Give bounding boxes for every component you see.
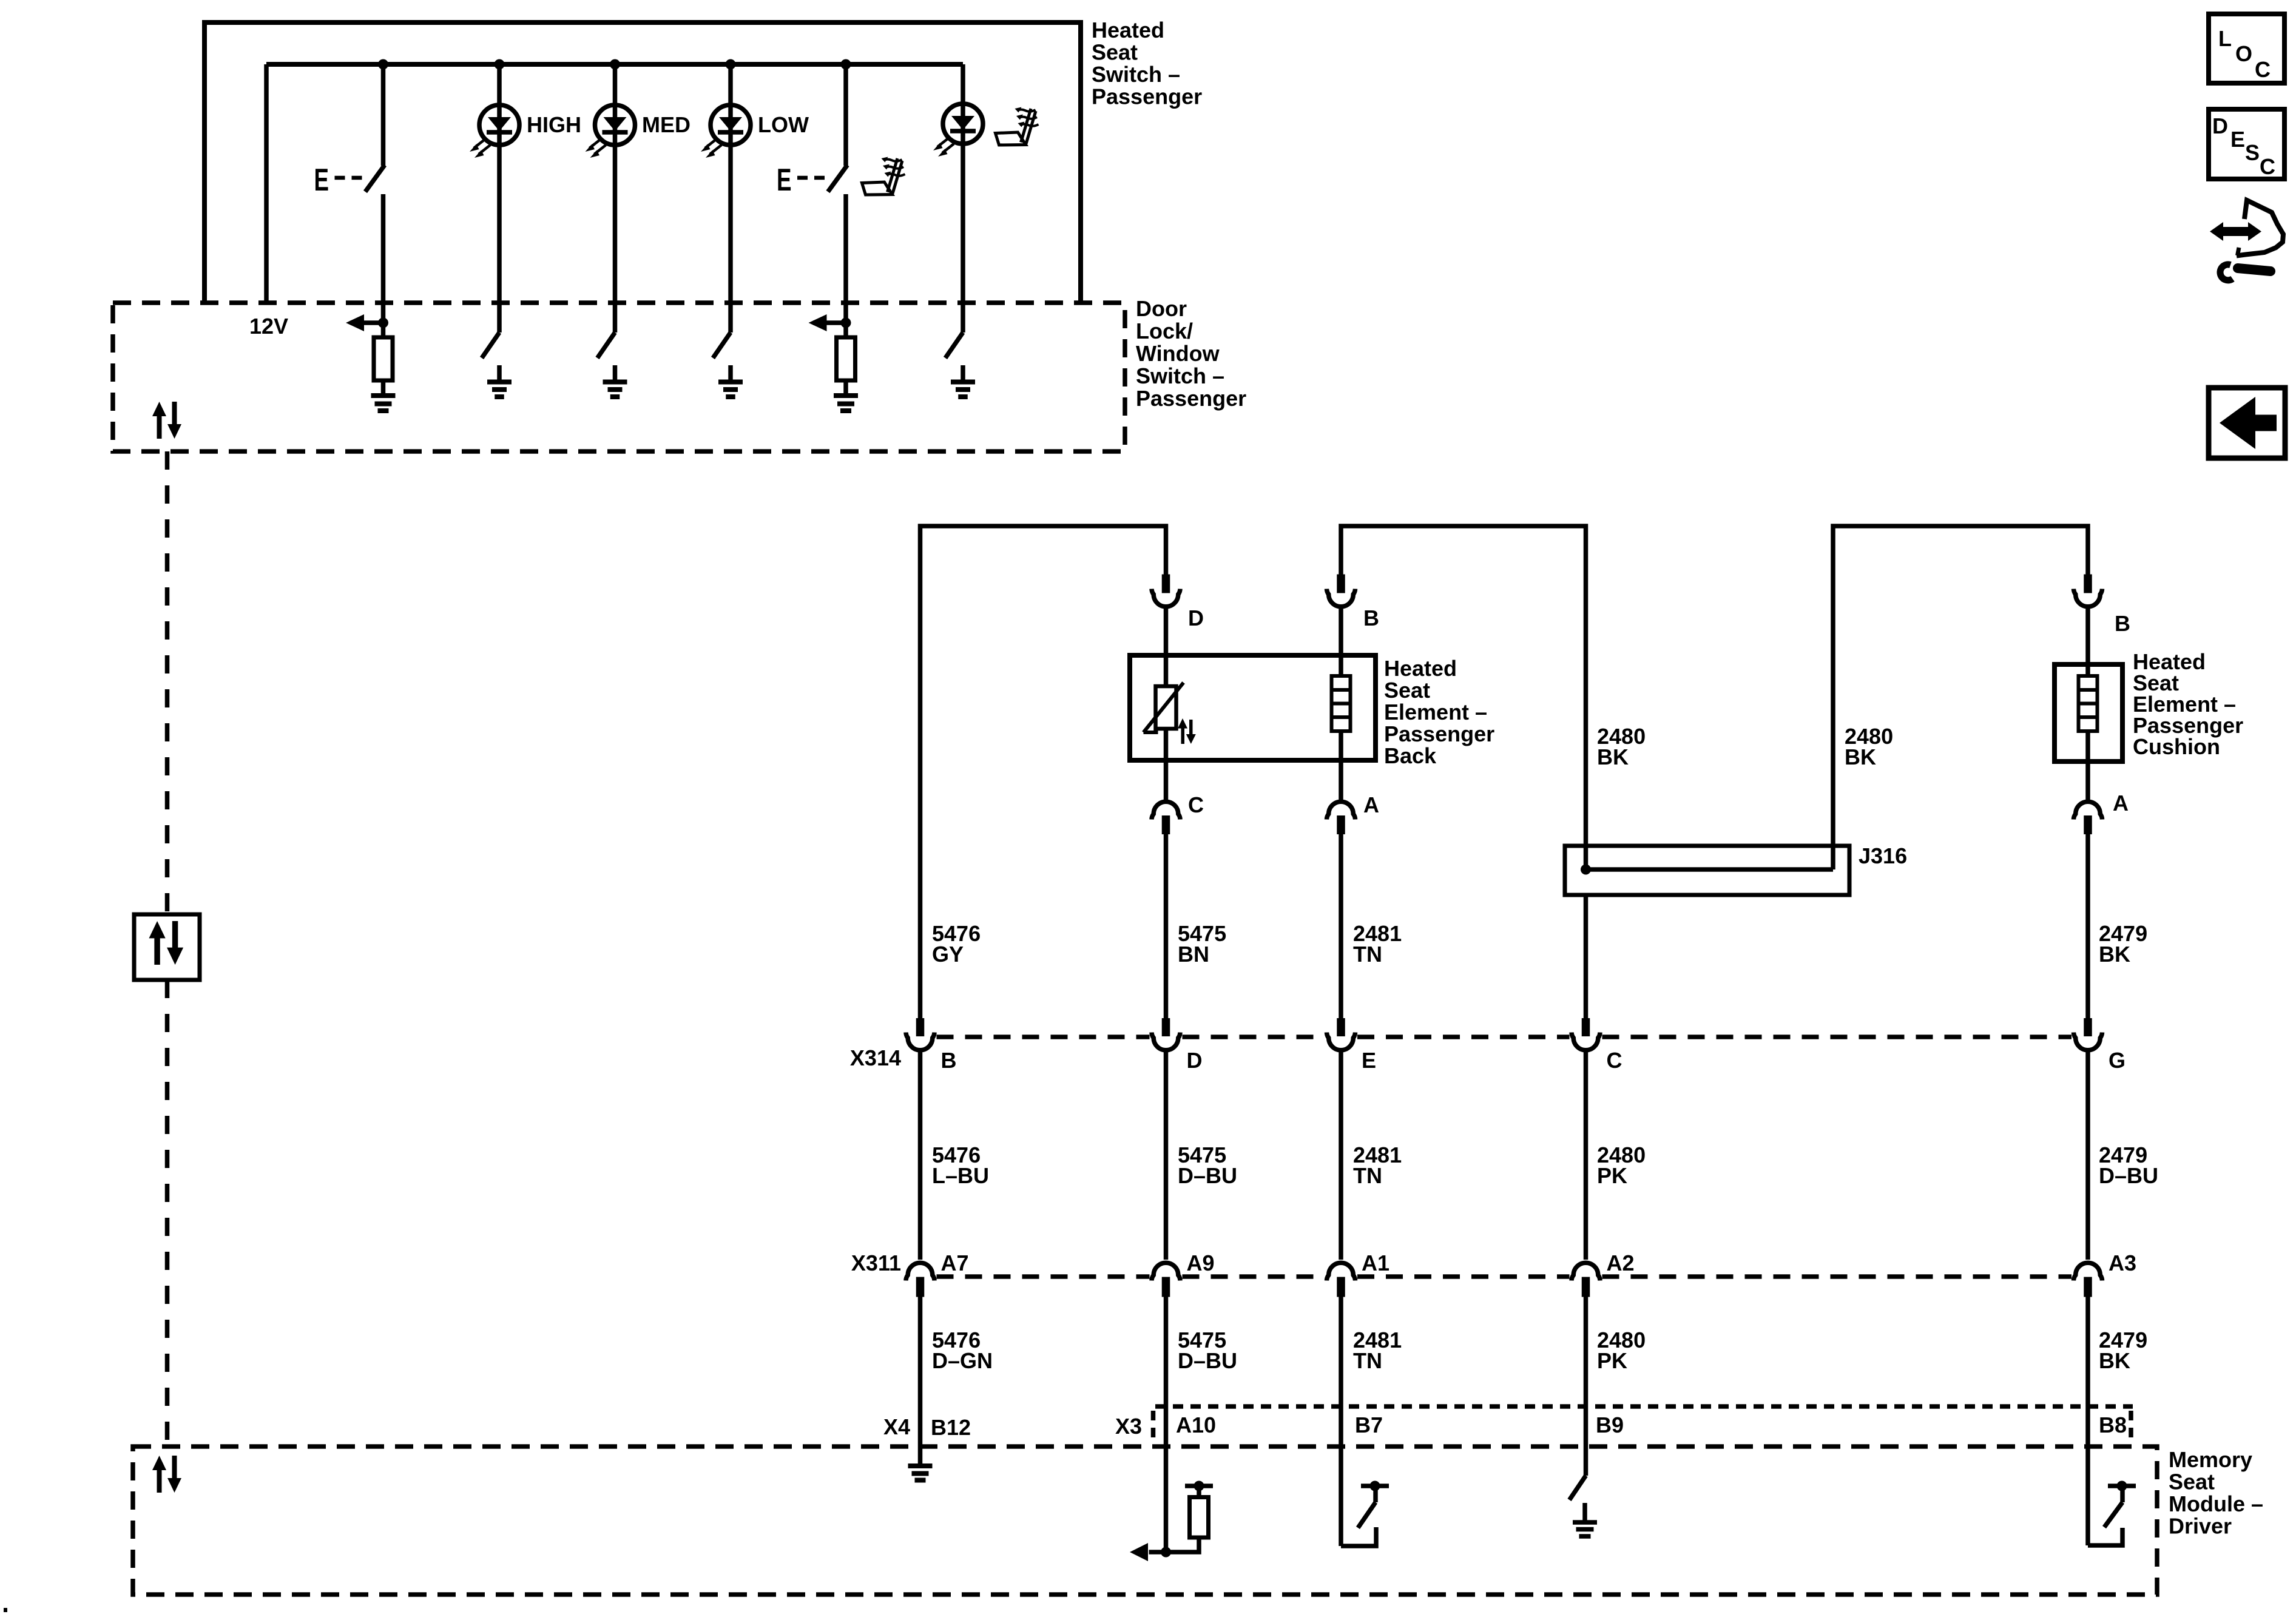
svg-text:Switch –: Switch – (1092, 62, 1180, 87)
svg-text:Passenger: Passenger (1136, 386, 1246, 411)
svg-text:A7: A7 (941, 1251, 969, 1275)
serial data dashed wire (upper) (165, 451, 170, 914)
wire hat 3 (1833, 526, 2088, 869)
svg-text:Lock/: Lock/ (1136, 319, 1193, 343)
wire hat 1 (920, 526, 1166, 1018)
LED indicator MED (586, 105, 635, 158)
connector socket B (1327, 589, 1356, 607)
switch SW2 (heated seat) with E actuator (777, 163, 848, 198)
wire label 2480 PK (upper) (1597, 1143, 1646, 1188)
wire B to cushion element (2085, 607, 2090, 676)
label: Memory Seat Module - Driver (2169, 1447, 2263, 1539)
label: Heated Seat Switch - Passenger (1092, 18, 1202, 109)
wire B to element box (1339, 607, 1343, 655)
resistor (A10 pull-up) (1190, 1497, 1209, 1538)
connector pin A (1337, 815, 1345, 834)
svg-text:X314: X314 (850, 1045, 901, 1070)
svg-text:S: S (2245, 140, 2260, 165)
connector X311 pin A1 (1337, 1277, 1345, 1297)
wire J316 to X314-C (1584, 895, 1589, 1018)
svg-text:LOW: LOW (758, 112, 809, 137)
svg-text:GY: GY (932, 942, 964, 967)
svg-text:Seat: Seat (2169, 1470, 2215, 1494)
connector X3 dashed line (1155, 1404, 2133, 1409)
wire C upper (1164, 760, 1169, 800)
ground (LED HIGH) (487, 382, 512, 397)
wire C to X314-D (1164, 834, 1169, 1018)
svg-text:B7: B7 (1355, 1413, 1383, 1437)
connector X314 socket C (1572, 1033, 1600, 1050)
connector socket A (cushion) (2074, 802, 2102, 819)
svg-text:B8: B8 (2099, 1413, 2127, 1437)
svg-text:Door: Door (1136, 296, 1187, 321)
connector X311 socket A2 (1572, 1263, 1600, 1280)
wire A to X314-E (1339, 834, 1343, 1018)
serial data arrows (door module) (152, 402, 181, 439)
wire label 5475 D-BU (lower) (1178, 1328, 1237, 1373)
svg-text:BK: BK (2099, 1348, 2130, 1373)
wire LED MED branch (613, 64, 618, 333)
wire label 2481 TN (middle) (1353, 1143, 1402, 1188)
svg-text:B: B (941, 1048, 957, 1073)
connector X311 pin A2 (1582, 1277, 1590, 1297)
svg-text:D: D (2212, 113, 2228, 138)
svg-text:B12: B12 (931, 1415, 971, 1440)
back arrow icon box (2209, 388, 2285, 458)
connector socket C (1152, 802, 1180, 819)
wire LED indicator branch (961, 64, 965, 333)
wire LED HIGH branch (497, 64, 502, 333)
switch blade (B7 driver) (1358, 1502, 1376, 1528)
heater element (seat cushion) (2079, 676, 2098, 731)
svg-text:D–BU: D–BU (2099, 1163, 2158, 1188)
wire X314-B to X311 (918, 1050, 923, 1260)
bus wire in switch module (266, 62, 963, 67)
junction supply rail (A10) (1194, 1481, 1204, 1491)
Heated Seat Element - Passenger Back box (1130, 655, 1376, 760)
wire label 2480 PK (lower) (1597, 1328, 1646, 1373)
svg-text:Switch –: Switch – (1136, 363, 1224, 388)
svg-text:X311: X311 (851, 1251, 901, 1275)
signal arrow left (switch2) (809, 314, 846, 331)
connector X3 left bracket (1151, 1411, 1156, 1444)
Memory Seat Module - Driver box (dashed) (133, 1447, 2157, 1595)
svg-text:O: O (2235, 41, 2252, 66)
wire thermistor to C (1164, 729, 1169, 760)
wire switch1 lower (381, 194, 386, 323)
svg-text:Passenger: Passenger (1384, 721, 1494, 746)
svg-text:E: E (1362, 1048, 1376, 1073)
switch contact (LED LOW driver) (713, 333, 731, 358)
wire to ground (LED) (961, 365, 965, 380)
svg-text:J316: J316 (1859, 843, 1907, 868)
wire label 5475 D-BU (upper) (1178, 1143, 1237, 1188)
svg-text:B: B (2115, 611, 2130, 636)
svg-text:L: L (2218, 26, 2232, 51)
svg-text:X3: X3 (1115, 1414, 1142, 1439)
bus junction (378, 59, 388, 70)
svg-text:Window: Window (1136, 341, 1220, 366)
serial data two-way symbol box (134, 914, 200, 980)
junction switch1 node (378, 318, 388, 328)
svg-text:BK: BK (1845, 744, 1876, 769)
wire label 5476 L-BU (932, 1143, 989, 1188)
wire X314-D to X311 (1164, 1050, 1169, 1260)
wire resistor R2 to ground (843, 380, 848, 394)
bus junction (495, 59, 505, 70)
connector X311 pin A7 (916, 1277, 925, 1297)
svg-text:Memory: Memory (2169, 1447, 2252, 1472)
connector pin B (element cushion) (2084, 575, 2092, 593)
resistor R1 (pull-up in door switch module) (374, 337, 393, 380)
svg-text:HIGH: HIGH (527, 112, 581, 137)
supply rail bar (B8) (2108, 1484, 2136, 1488)
connector X314 dashed line (937, 1035, 2072, 1039)
wire resistor to supply rail (1197, 1488, 1201, 1497)
svg-text:Element –: Element – (1384, 700, 1487, 724)
heater element (seat back) (1332, 676, 1351, 731)
svg-text:BK: BK (1597, 744, 1629, 769)
wire blade to rail (B8) (2120, 1488, 2125, 1502)
connector X3 right bracket (2129, 1411, 2133, 1440)
Heated Seat Switch - Passenger module box (204, 22, 1081, 303)
svg-text:A9: A9 (1187, 1251, 1215, 1275)
wire D to element box (1164, 607, 1169, 655)
svg-text:D: D (1187, 1048, 1203, 1073)
svg-text:A3: A3 (2109, 1251, 2136, 1275)
svg-text:B: B (1363, 606, 1379, 630)
LOC letters (2218, 26, 2271, 82)
bus junction (610, 59, 620, 70)
switch blade (B9 driver) (1570, 1476, 1586, 1500)
Door Lock/Window Switch - Passenger module (dashed) (113, 303, 1125, 451)
splice J316 internal wire (1586, 867, 1834, 872)
svg-text:A1: A1 (1362, 1251, 1389, 1275)
svg-text:Back: Back (1384, 743, 1437, 768)
wire X314-G to X311 (2085, 1050, 2090, 1260)
junction rail (B7) (1370, 1481, 1380, 1491)
svg-text:PK: PK (1597, 1163, 1627, 1188)
connector socket B (cushion) (2074, 589, 2102, 607)
heated seat icon (switch2) (862, 157, 905, 195)
svg-text:BK: BK (2099, 942, 2130, 967)
DESC icon box (2209, 109, 2284, 179)
connector pin A (cushion) (2084, 815, 2092, 834)
wire X311-A2 to module (1584, 1297, 1589, 1476)
DESC letters (2212, 113, 2275, 179)
svg-text:D–GN: D–GN (932, 1348, 993, 1373)
page mark (4, 1608, 7, 1612)
ground (LED) (951, 382, 975, 397)
wire cushion element to A (2085, 731, 2090, 800)
label: Heated Seat Element - Passenger Cushion (2133, 649, 2243, 759)
svg-text:D: D (1188, 606, 1204, 630)
wire X311-A1 to module (1339, 1297, 1343, 1546)
ground (LED MED) (603, 382, 627, 397)
svg-text:C: C (1188, 792, 1204, 817)
svg-text:Driver: Driver (2169, 1514, 2232, 1539)
connector X314 pin E (1337, 1018, 1345, 1036)
svg-text:A2: A2 (1607, 1251, 1635, 1275)
connector X311 socket A3 (2074, 1263, 2102, 1280)
wire B8 fixed contact (2088, 1528, 2122, 1545)
svg-text:G: G (2109, 1048, 2125, 1073)
ground (LED LOW) (718, 382, 743, 397)
LED indicator HIGH (470, 105, 519, 158)
svg-text:C: C (2260, 154, 2275, 179)
wire label 2480 BK (right) (1845, 724, 1893, 769)
connector socket D (1152, 589, 1180, 607)
wire switch1 upper (381, 64, 386, 166)
LOC icon box (2209, 14, 2284, 83)
svg-text:TN: TN (1353, 1163, 1382, 1188)
svg-text:A: A (2113, 791, 2129, 815)
wire 12V feed (264, 64, 269, 303)
wire switch2 lower (843, 194, 848, 323)
wire switch2 upper (843, 64, 848, 166)
heated seat icon (LED) (996, 107, 1039, 146)
wire to resistor R1 (381, 323, 386, 337)
connector X311 socket A1 (1327, 1263, 1356, 1280)
wire resistor R1 to ground (381, 380, 386, 394)
wire X311-A7 to X4-B12 (918, 1297, 923, 1463)
svg-text:Seat: Seat (1384, 678, 1430, 703)
svg-text:Cushion: Cushion (2133, 734, 2220, 759)
connector X314 socket D (1152, 1033, 1180, 1050)
junction A10 node (1161, 1547, 1171, 1558)
connector socket A (1327, 802, 1356, 819)
wire B7 fixed contact (1341, 1527, 1376, 1546)
svg-text:E: E (314, 163, 329, 198)
junction rail (B8) (2117, 1481, 2127, 1491)
ground (switch1) (371, 396, 396, 411)
svg-text:Seat: Seat (1092, 40, 1138, 65)
wire to resistor R2 (843, 323, 848, 337)
wire label 2480 BK (left) (1597, 724, 1646, 769)
connector X314 pin D (1162, 1018, 1170, 1036)
wire label 2479 D-BU (2099, 1143, 2158, 1188)
serial data arrows (boxed) (149, 921, 184, 965)
wire label 5476 D-GN (932, 1328, 993, 1373)
wire hat 2 (1341, 526, 1586, 869)
svg-text:BN: BN (1178, 942, 1209, 967)
splice pack J316 box (1565, 846, 1849, 895)
svg-text:L–BU: L–BU (932, 1163, 989, 1188)
switch contact (LED HIGH driver) (482, 333, 499, 358)
connector X314 socket G (2074, 1033, 2102, 1050)
connector X314 socket B (906, 1033, 934, 1050)
svg-text:TN: TN (1353, 942, 1382, 967)
Heated Seat Element - Passenger Cushion box (2055, 664, 2122, 761)
svg-text:B9: B9 (1596, 1413, 1624, 1437)
connector-view icon (double arrow with wrench) (2210, 200, 2283, 280)
signal arrow left (A10) (1130, 1543, 1166, 1561)
switch contact (LED MED driver) (598, 333, 615, 358)
wire label 5475 BN (1178, 921, 1226, 967)
wire to ground (LED HIGH) (497, 365, 502, 380)
label: Heated Seat Element - Passenger Back (1384, 656, 1494, 768)
svg-text:A10: A10 (1176, 1413, 1216, 1437)
svg-text:A: A (1363, 792, 1379, 817)
thermistor (seat temperature sensor) (1144, 683, 1184, 732)
svg-text:D–BU: D–BU (1178, 1163, 1237, 1188)
connector pin D (element back) (1162, 575, 1170, 593)
connector pin B (element back) (1337, 575, 1345, 593)
wire to ground (LED MED) (613, 365, 618, 380)
svg-text:D–BU: D–BU (1178, 1348, 1237, 1373)
connector pin C (1162, 815, 1170, 834)
wire blade to rail (B7) (1373, 1488, 1378, 1502)
svg-text:C: C (1607, 1048, 1622, 1073)
wire label 2479 BK (lower) (2099, 1328, 2147, 1373)
wire label 2481 TN (lower) (1353, 1328, 1402, 1373)
svg-text:TN: TN (1353, 1348, 1382, 1373)
svg-text:12V: 12V (249, 314, 288, 339)
bus junction (726, 59, 736, 70)
resistor R2 (pull-up in door switch module) (837, 337, 856, 380)
bus junction (841, 59, 851, 70)
serial data arrows (memory seat module) (152, 1456, 181, 1493)
connector X314 pin B (916, 1018, 925, 1036)
LED indicator heated seat ON (933, 104, 983, 157)
splice junction J316 (1581, 865, 1591, 875)
svg-text:E: E (2230, 127, 2245, 152)
connector X311 pin A3 (2084, 1277, 2092, 1297)
ground (switch2) (834, 396, 858, 411)
junction switch2 node (841, 318, 851, 328)
svg-text:PK: PK (1597, 1348, 1627, 1373)
connector X311 pin A9 (1162, 1277, 1170, 1297)
signal arrow left (switch1) (346, 314, 383, 331)
ground (B12) (908, 1466, 933, 1480)
wire A to X314-G (2085, 834, 2090, 1018)
ground stem (B9) (1582, 1503, 1587, 1521)
supply rail bar (B7) (1361, 1484, 1389, 1488)
wire to thermistor (1164, 655, 1169, 686)
svg-text:Heated: Heated (1092, 18, 1164, 42)
svg-text:Heated: Heated (1384, 656, 1457, 681)
wire to heater element back (1339, 655, 1343, 676)
serial data dashed wire (lower) (165, 980, 170, 1447)
ground (B9) (1573, 1522, 1597, 1536)
connector X311 socket A9 (1152, 1263, 1180, 1280)
wire A upper (1339, 760, 1343, 800)
svg-text:Passenger: Passenger (1092, 84, 1202, 109)
wire X314-E to X311 (1339, 1050, 1343, 1260)
connector X314 pin G (2084, 1018, 2092, 1036)
wire to ground (LED LOW) (728, 365, 733, 380)
connector X314 socket E (1327, 1033, 1356, 1050)
connector X311 dashed line (937, 1274, 2072, 1279)
svg-text:E: E (777, 163, 792, 198)
svg-text:Module –: Module – (2169, 1491, 2263, 1516)
wire X311-A9 to module (1164, 1297, 1169, 1552)
switch contact (LED driver) (945, 333, 963, 358)
back arrow (2220, 397, 2277, 449)
wire X311-A3 to module (2085, 1297, 2090, 1545)
wire label 2481 TN (upper) (1353, 921, 1402, 967)
connector X314 pin C (1582, 1018, 1590, 1036)
wire label 5476 GY (932, 921, 981, 967)
switch SW1 (heat request) with E actuator (314, 163, 385, 198)
label: Door Lock/Window Switch - Passenger (1136, 296, 1246, 411)
connector X311 socket A7 (906, 1263, 934, 1280)
wire X314-C to X311 (1584, 1050, 1589, 1260)
supply rail bar (A10) (1185, 1484, 1213, 1488)
wire A10 node to resistor (1166, 1538, 1200, 1552)
LED indicator LOW (701, 105, 751, 158)
wire heater to A (1339, 731, 1343, 760)
wire LED LOW branch (728, 64, 733, 333)
svg-text:MED: MED (642, 112, 690, 137)
thermistor up/down arrows (1178, 718, 1196, 744)
switch blade (B8 driver) (2104, 1502, 2122, 1527)
svg-text:X4: X4 (883, 1414, 910, 1439)
svg-text:C: C (2255, 57, 2271, 82)
wire label 2479 BK (upper) (2099, 921, 2147, 967)
